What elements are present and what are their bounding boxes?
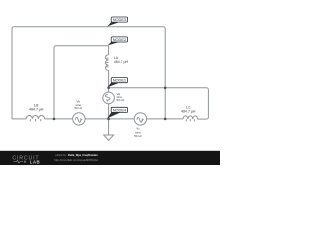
svg-text:NODE2: NODE2 [113,37,126,42]
svg-text:NODE3: NODE3 [113,17,126,22]
junction node NODE1 x right vertical [164,87,167,90]
svg-text:484.7 µH: 484.7 µH [181,110,196,114]
label Va value [117,92,125,102]
ground [104,119,114,140]
node flag NODE1 [107,78,127,88]
footer bar [0,151,220,165]
svg-text:50 Hz: 50 Hz [134,134,142,138]
wire right vertical [163,27,165,119]
node flag NODE2 [108,37,128,46]
inductor LB [26,115,44,121]
junction node NODE1 at branch A [107,87,110,90]
label LC value [181,106,196,114]
svg-text:50 Hz: 50 Hz [117,98,125,102]
node flag NODE4 [107,107,127,118]
wire right branch vertical [207,90,209,120]
label LA value [114,56,129,64]
label Vb value [74,100,82,111]
svg-text:50 Hz: 50 Hz [74,106,82,110]
svg-text:edited by : Delta_Wye_FreqDoma: edited by : Delta_Wye_FreqDomain [55,153,98,157]
inductor LA (vertical) [105,55,108,71]
wire top rail NODE3 [14,26,164,28]
svg-text:NODE1: NODE1 [113,78,126,83]
wire Va bottom lead [108,104,110,119]
wire bottom rail segment 5 [198,118,207,120]
source Vb (sine) [73,113,85,125]
inductor LC [183,116,198,122]
svg-text:LAB: LAB [30,160,40,165]
junction node bottom x right vertical [164,118,167,121]
junction node at Va bottom [107,118,110,121]
wire bottom rail segment 4 [147,118,183,120]
svg-text:NODE4: NODE4 [113,107,127,112]
wire LA bottom to Va top [108,70,110,92]
junction node at Vb branch [53,118,56,121]
wire bottom rail segment 1 [12,117,26,119]
canvas background [0,0,220,165]
wire LA top lead [108,46,110,55]
wire mid rail NODE1 [109,88,209,90]
source Va (sine) [103,92,115,104]
source Vc (sine) [134,113,146,125]
wire bottom rail segment 2 [45,118,73,120]
svg-text:484.7 µH: 484.7 µH [29,108,44,112]
svg-text:484.7 µH: 484.7 µH [114,60,129,64]
label LB value [29,104,44,112]
wire inner corner (Vb branch) [54,46,109,119]
logo LAB row [14,160,26,163]
wire left vertical [12,27,14,119]
label Vc value [134,127,142,138]
svg-text:http://circuitlab.com/cquad38h: http://circuitlab.com/cquad38h524w [54,158,99,162]
wire bottom rail segment 3 [85,118,134,120]
node flag NODE3 [107,17,127,26]
